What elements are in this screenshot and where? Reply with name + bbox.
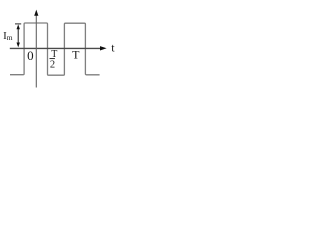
y-axis arrowhead xyxy=(34,10,38,16)
svg-text:0: 0 xyxy=(27,48,33,63)
background xyxy=(0,0,123,95)
svg-text:2: 2 xyxy=(50,59,55,70)
y-axis (vertical) xyxy=(35,15,37,88)
t-axis (horizontal) xyxy=(10,47,101,49)
t-axis arrowhead xyxy=(100,46,107,50)
label T/2 fraction xyxy=(50,49,58,70)
svg-text:T: T xyxy=(72,47,80,61)
Im amplitude tick (top) xyxy=(15,23,21,25)
Im dimension arrow (double-headed) xyxy=(17,24,20,47)
square-wave i(t) trace xyxy=(10,23,100,75)
